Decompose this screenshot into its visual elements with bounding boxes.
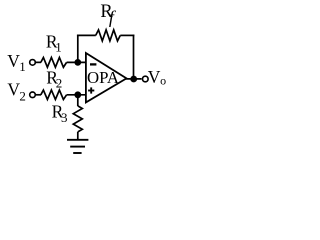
resistor R1 (zigzag): [41, 57, 67, 67]
label Vo: [148, 67, 166, 87]
label R2: [46, 67, 62, 90]
label Rf: [100, 2, 117, 27]
op-amp minus sign (inverting input): [90, 63, 96, 65]
op-amp U1 triangle: [86, 53, 127, 102]
svg-text:1: 1: [55, 40, 62, 55]
svg-text:V: V: [148, 67, 161, 87]
svg-text:3: 3: [61, 110, 68, 125]
wire feedback vertical right (down to output): [133, 35, 135, 79]
wire V2 to R2: [36, 94, 41, 96]
svg-text:OPA: OPA: [87, 68, 119, 87]
node A junction dot (inverting input node): [74, 59, 81, 66]
node B junction dot (non-inverting input node): [74, 91, 81, 98]
wire node B down to R3: [77, 95, 79, 106]
wire feedback vertical left (node A up): [77, 35, 79, 63]
wire op-amp output: [126, 78, 142, 80]
label V2: [7, 80, 26, 104]
terminal Vo (open circle): [143, 76, 149, 82]
wire V1 to R1: [36, 61, 41, 63]
label R3: [52, 101, 68, 125]
wire feedback top horizontal left segment: [77, 34, 96, 36]
ground: [67, 140, 88, 153]
node output junction dot: [130, 76, 137, 83]
svg-text:2: 2: [56, 76, 63, 91]
svg-text:o: o: [160, 73, 166, 87]
wire R2 to op-amp non-inverting input: [67, 94, 87, 96]
wire R3 to ground: [77, 132, 79, 140]
resistor R3 (vertical zigzag): [73, 106, 82, 132]
svg-text:1: 1: [19, 59, 26, 74]
terminal V1 (open circle): [30, 60, 36, 66]
wire feedback top horizontal right segment: [120, 34, 134, 36]
wire R1 to op-amp inverting input: [67, 61, 87, 63]
label V1: [7, 51, 26, 74]
resistor R2 (zigzag): [41, 90, 67, 99]
svg-text:2: 2: [19, 89, 26, 104]
terminal V2 (open circle): [30, 92, 36, 98]
op-amp plus sign (non-inverting input): [88, 87, 94, 93]
resistor Rf (zigzag): [96, 30, 121, 41]
label R1: [46, 32, 62, 55]
